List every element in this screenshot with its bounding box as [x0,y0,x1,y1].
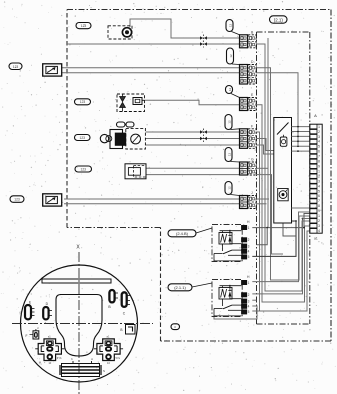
svg-text:123: 123 [14,198,20,202]
svg-text:F: F [26,334,28,338]
svg-text:1: 1 [318,169,320,173]
svg-text:9: 9 [318,165,320,169]
svg-text:2: 2 [318,174,320,178]
svg-text:7: 7 [318,155,320,159]
svg-text:3: 3 [248,299,250,303]
svg-text:123: 123 [79,136,85,140]
svg-text:123: 123 [80,100,86,104]
svg-text:J: J [251,191,253,195]
svg-text:3: 3 [318,135,320,139]
svg-text:4: 4 [318,229,320,233]
svg-text:3: 3 [318,179,320,183]
svg-text:(2.1.1): (2.1.1) [174,285,186,290]
svg-text:M: M [39,361,41,365]
svg-text:123: 123 [81,24,87,28]
svg-text:5: 5 [248,255,250,259]
svg-text:123: 123 [80,167,86,171]
svg-text:123: 123 [13,65,19,69]
svg-text:12: 12 [229,54,233,58]
svg-text:3: 3 [318,224,320,228]
svg-text:6: 6 [318,150,320,154]
svg-text:2: 2 [318,130,320,134]
svg-text:1: 1 [318,214,320,218]
svg-text:3: 3 [248,244,250,248]
svg-text:A: A [91,357,93,361]
svg-text:G: G [251,158,254,162]
svg-text:4: 4 [318,184,320,188]
svg-text:4: 4 [318,140,320,144]
svg-text:F: F [251,124,253,128]
svg-text:B: B [120,328,122,332]
svg-text:1: 1 [248,226,250,230]
svg-text:12: 12 [228,153,232,157]
svg-text:5: 5 [318,189,320,193]
svg-text:12: 12 [228,120,232,124]
svg-text:(2.4.B): (2.4.B) [176,231,189,236]
svg-text:4: 4 [248,305,250,309]
svg-text:8: 8 [318,160,320,164]
svg-text:6Yb: 6Yb [57,356,62,360]
svg-text:2: 2 [248,293,250,297]
svg-text:12: 12 [229,24,233,28]
svg-text:5Ya: 5Ya [116,356,121,360]
svg-text:12: 12 [228,88,232,92]
svg-text:(2.1): (2.1) [274,17,284,22]
svg-text:12: 12 [228,186,232,190]
svg-text:a1: a1 [314,237,318,241]
svg-text:6: 6 [318,194,320,198]
svg-text:N: N [103,369,105,373]
svg-text:8: 8 [318,204,320,208]
svg-text:5: 5 [318,145,320,149]
svg-text:1: 1 [318,125,320,129]
svg-text:5: 5 [248,310,250,314]
svg-text:A: A [314,113,317,118]
svg-text:2: 2 [248,238,250,242]
svg-text:2: 2 [318,219,320,223]
svg-text:1: 1 [248,281,250,285]
svg-text:7: 7 [318,199,320,203]
svg-text:4: 4 [248,250,250,254]
svg-text:9: 9 [318,209,320,213]
